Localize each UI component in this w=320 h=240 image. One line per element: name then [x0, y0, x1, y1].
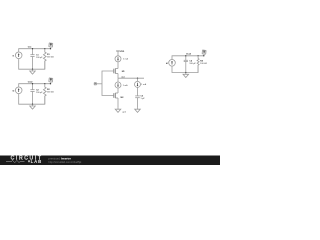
svg-text:100 pF: 100 pF: [36, 92, 43, 94]
junction dot at out: [137, 78, 138, 79]
svg-text:http://circuitlab.com/c/4ud5jk: http://circuitlab.com/c/4ud5jk: [48, 160, 82, 164]
current source I7: [135, 78, 147, 87]
ground of circuit 1: [30, 69, 36, 74]
wire bottom rail of circuit 2: [19, 94, 45, 105]
wire I5 to M1: [117, 62, 119, 69]
current source I6: [115, 78, 128, 88]
svg-text:VDD: VDD: [120, 51, 125, 53]
output flag Out of circuit 1: [49, 43, 53, 49]
wire top rail of circuit 3: [172, 56, 204, 60]
resistor R1: [43, 49, 54, 69]
junction dots circuit 1: [32, 48, 33, 49]
watermark bar: [0, 156, 220, 166]
VDD supply flag: [116, 51, 125, 56]
wire M2 source to ground: [117, 98, 119, 108]
junction dots circuit 3: [185, 55, 186, 56]
current source I5: [115, 56, 128, 62]
current source I1: [13, 52, 22, 59]
svg-text:100 pF: 100 pF: [36, 57, 43, 59]
node out wire: [118, 77, 144, 79]
svg-text:100 kΩ: 100 kΩ: [47, 92, 54, 94]
output flag Out4 of circuit 3: [202, 50, 206, 56]
resistor R4: [197, 56, 207, 73]
wire I6 to M2: [117, 88, 119, 93]
wire top rail of circuit 2: [19, 84, 51, 87]
svg-text:100 kΩ: 100 kΩ: [47, 57, 54, 59]
svg-text:Out: Out: [28, 45, 32, 48]
wire bottom rail of circuit 1: [19, 59, 45, 70]
ground of circuit 2: [30, 104, 36, 109]
svg-text:LAB: LAB: [31, 159, 42, 164]
wire top rail of circuit 1: [19, 49, 51, 52]
current source I4: [166, 60, 175, 67]
svg-text:1 mA: 1 mA: [123, 58, 128, 61]
resistor R2: [43, 84, 54, 105]
capacitor C5: [135, 87, 145, 107]
svg-text:1 mA: 1 mA: [141, 83, 146, 86]
wire M1 drain to out rail: [117, 74, 119, 79]
ground under C5: [135, 108, 141, 113]
capacitor C4: [184, 56, 197, 73]
ground of circuit 3: [183, 73, 189, 78]
CircuitLab logo zigzag: [6, 160, 25, 162]
svg-text:gnd: gnd: [123, 111, 126, 113]
svg-text:out: out: [121, 75, 124, 78]
pmos M1: [114, 69, 126, 74]
svg-text:previous | Inverter: previous | Inverter: [48, 156, 71, 160]
svg-text:100 pF: 100 pF: [189, 63, 196, 65]
input terminal in: [94, 83, 102, 85]
svg-text:1 mA: 1 mA: [123, 84, 128, 87]
svg-text:100 kΩ: 100 kΩ: [200, 63, 207, 65]
ground under M2: [115, 108, 121, 113]
junction dots circuit 2: [32, 83, 33, 84]
wire input to gates: [102, 71, 114, 96]
capacitor C2: [30, 84, 43, 105]
capacitor C1: [30, 49, 43, 69]
output flag Out2 of circuit 2: [49, 78, 53, 84]
wire bottom rail of circuit 3: [172, 65, 198, 72]
CircuitLab logo plug icon: [28, 160, 30, 162]
nmos M2: [114, 93, 124, 99]
current source I2: [13, 87, 22, 94]
